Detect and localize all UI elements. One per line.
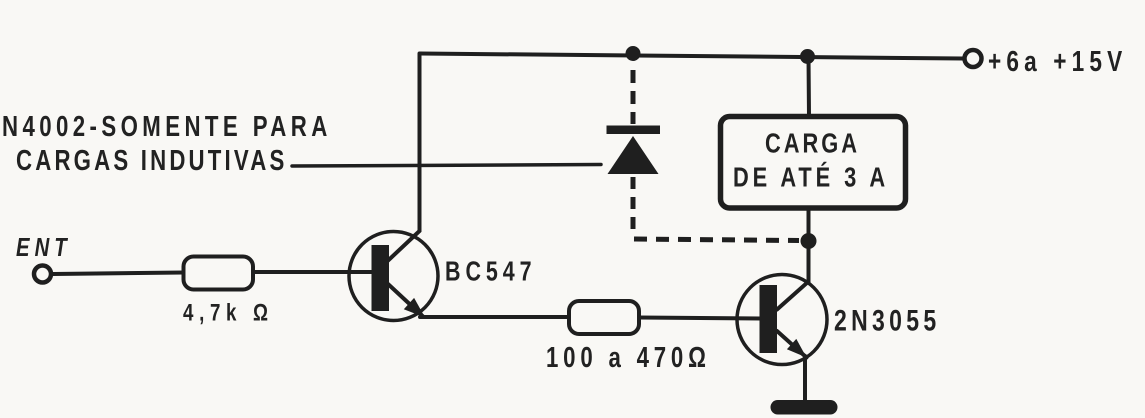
svg-text:DE ATÉ 3 A: DE ATÉ 3 A xyxy=(733,161,885,193)
svg-text:CARGA: CARGA xyxy=(765,128,857,159)
svg-text:N4002-SOMENTE PARA: N4002-SOMENTE PARA xyxy=(2,111,327,142)
svg-text:ENT: ENT xyxy=(16,233,68,262)
svg-text:CARGAS INDUTIVAS: CARGAS INDUTIVAS xyxy=(16,145,284,176)
svg-text:100 a 470Ω: 100 a 470Ω xyxy=(546,342,706,373)
